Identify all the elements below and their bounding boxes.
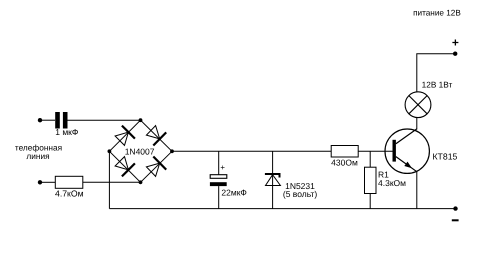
svg-text:430Ом: 430Ом xyxy=(331,157,358,167)
zener diode 1N5231 xyxy=(265,174,281,186)
svg-text:1N4007: 1N4007 xyxy=(125,147,155,157)
lamp 12V 1W xyxy=(405,92,431,118)
wire bottom line terminal to 4.7k resistor xyxy=(40,181,55,183)
svg-text:+: + xyxy=(220,163,225,172)
bridge edge wire L-B xyxy=(109,151,140,182)
terminal phone line top xyxy=(38,118,42,122)
diode VD4 bridge bottom-right xyxy=(146,157,166,177)
svg-text:КТ815: КТ815 xyxy=(433,151,458,161)
node bridge right xyxy=(170,149,174,153)
wire 430 Ohm resistor to transistor base xyxy=(358,150,393,152)
resistor 4.7kOhm xyxy=(55,176,83,188)
wire C2 top lead xyxy=(218,151,220,174)
wire R1 top lead xyxy=(369,151,371,167)
svg-text:питание 12В: питание 12В xyxy=(413,9,461,18)
node bridge bottom xyxy=(139,180,143,184)
transistor base bar xyxy=(393,140,396,162)
terminal +12V xyxy=(453,52,457,56)
bridge edge wire L-T xyxy=(109,120,140,151)
svg-text:4.3кОм: 4.3кОм xyxy=(378,178,406,188)
terminal phone line bottom xyxy=(38,180,42,184)
wire R1 bottom lead xyxy=(369,194,371,209)
resistor R1 4.3kOhm xyxy=(365,167,377,193)
wire bridge left node down to negative rail xyxy=(108,151,110,208)
svg-text:22мкФ: 22мкФ xyxy=(221,187,246,197)
wire zener branch xyxy=(272,151,274,208)
transistor Q1 KT815 circle xyxy=(385,129,429,173)
bridge edge wire T-R xyxy=(141,120,173,151)
wire collector to lamp xyxy=(416,118,418,130)
capacitor C1 1uF plates xyxy=(55,112,67,129)
node bridge left xyxy=(108,149,112,153)
transistor collector line xyxy=(396,129,417,144)
svg-text:12В 1Вт: 12В 1Вт xyxy=(422,80,453,90)
svg-text:1 мкФ: 1 мкФ xyxy=(55,127,78,137)
transistor emitter line with arrow xyxy=(396,157,417,172)
wire C2 bottom lead xyxy=(218,186,220,209)
diode VD2 bridge top-right xyxy=(146,126,166,146)
diode VD1 bridge left-top xyxy=(115,126,135,146)
wire negative bottom rail xyxy=(109,208,455,210)
capacitor C2 22uF electrolytic xyxy=(210,175,227,186)
terminal minus xyxy=(453,206,457,210)
resistor 430 Ohm xyxy=(331,146,358,158)
node bridge top xyxy=(139,118,143,122)
svg-text:линия: линия xyxy=(26,151,49,161)
diode VD3 bridge left-bottom xyxy=(115,157,135,177)
label minus sign xyxy=(452,219,459,221)
wire emitter to negative rail xyxy=(416,172,418,209)
wire lamp top to plus terminal xyxy=(417,54,455,92)
wire 4.7k resistor to bridge bottom node xyxy=(83,181,141,183)
svg-text:+: + xyxy=(452,36,459,50)
wire bridge right node to 430 Ohm resistor xyxy=(172,150,331,152)
wire C1 to bridge top node xyxy=(68,119,141,121)
svg-text:(5 вольт): (5 вольт) xyxy=(283,189,317,199)
svg-text:4.7кОм: 4.7кОм xyxy=(55,188,84,198)
bridge edge wire B-R xyxy=(141,151,173,182)
wire top line from terminal to C1 xyxy=(40,119,55,121)
